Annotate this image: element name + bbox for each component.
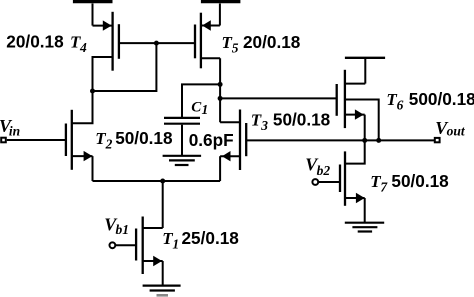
wire Vin to T2 gate xyxy=(7,139,66,141)
node T6 gate branch xyxy=(218,96,223,101)
wire Vb1 to T1 gate xyxy=(115,244,136,246)
capacitor C1 xyxy=(164,84,220,155)
ground (C1) xyxy=(163,156,202,165)
svg-text:b2: b2 xyxy=(317,163,331,178)
transistor T4 xyxy=(93,12,119,91)
svg-text:50/0.18: 50/0.18 xyxy=(115,128,173,148)
svg-text:3: 3 xyxy=(260,118,268,133)
wire tail line xyxy=(93,180,221,182)
svg-text:25/0.18: 25/0.18 xyxy=(182,228,240,248)
wire tail to T1 drain xyxy=(162,181,164,228)
transistor T5 xyxy=(195,13,220,69)
svg-text:out: out xyxy=(447,123,466,138)
terminal Vb1 xyxy=(110,242,116,248)
wire T4-T5 gates xyxy=(119,42,195,44)
node T4 drain / T2 drain xyxy=(90,89,95,94)
svg-text:b1: b1 xyxy=(116,222,130,237)
node tail junction xyxy=(160,179,165,184)
wire Vb2 to T7 gate xyxy=(318,181,340,183)
svg-text:2: 2 xyxy=(105,136,113,151)
svg-text:5: 5 xyxy=(232,40,239,55)
node T6 drain xyxy=(376,138,381,143)
svg-text:T: T xyxy=(95,129,106,148)
svg-text:500/0.18: 500/0.18 xyxy=(409,89,474,109)
VDD rail left (T4 supply bar) xyxy=(73,0,113,3)
svg-text:6: 6 xyxy=(397,97,404,112)
wire T6 gate to first stage output xyxy=(220,97,337,99)
svg-text:4: 4 xyxy=(79,40,87,55)
transistor T7 xyxy=(340,140,365,222)
wire T5 source to VDD xyxy=(219,4,221,26)
transistor T1 xyxy=(136,217,163,286)
svg-text:20/0.18: 20/0.18 xyxy=(243,32,301,52)
transistor T2 xyxy=(66,91,93,181)
svg-text:50/0.18: 50/0.18 xyxy=(391,171,449,191)
node T7 drain xyxy=(362,138,367,143)
VDD rail right (T5 supply bar) xyxy=(201,0,241,3)
ground (T7) xyxy=(345,223,384,232)
node gate junction xyxy=(154,41,159,46)
wire T4 source to VDD xyxy=(92,4,94,26)
svg-text:1: 1 xyxy=(202,102,209,117)
terminal Vb2 xyxy=(312,179,318,185)
node C1 branch xyxy=(218,82,223,87)
wire output line (T3 gate to Vout) xyxy=(246,139,435,141)
wire gate to drain (diode connection) xyxy=(93,43,157,91)
VDD rail T6 xyxy=(345,57,385,59)
terminal Vin xyxy=(1,138,6,143)
ground (T1) xyxy=(143,286,181,296)
wire T6 source to VDD xyxy=(364,58,366,84)
svg-text:20/0.18: 20/0.18 xyxy=(6,31,64,51)
terminal Vout xyxy=(435,138,440,142)
svg-text:T: T xyxy=(251,111,262,130)
svg-text:0.6pF: 0.6pF xyxy=(189,130,234,150)
transistor T3 xyxy=(220,110,246,182)
svg-text:in: in xyxy=(9,123,20,138)
svg-text:50/0.18: 50/0.18 xyxy=(273,110,331,130)
transistor T6 xyxy=(337,70,379,141)
svg-text:1: 1 xyxy=(172,237,179,252)
wire T5 drain down to T3 drain xyxy=(219,58,221,122)
